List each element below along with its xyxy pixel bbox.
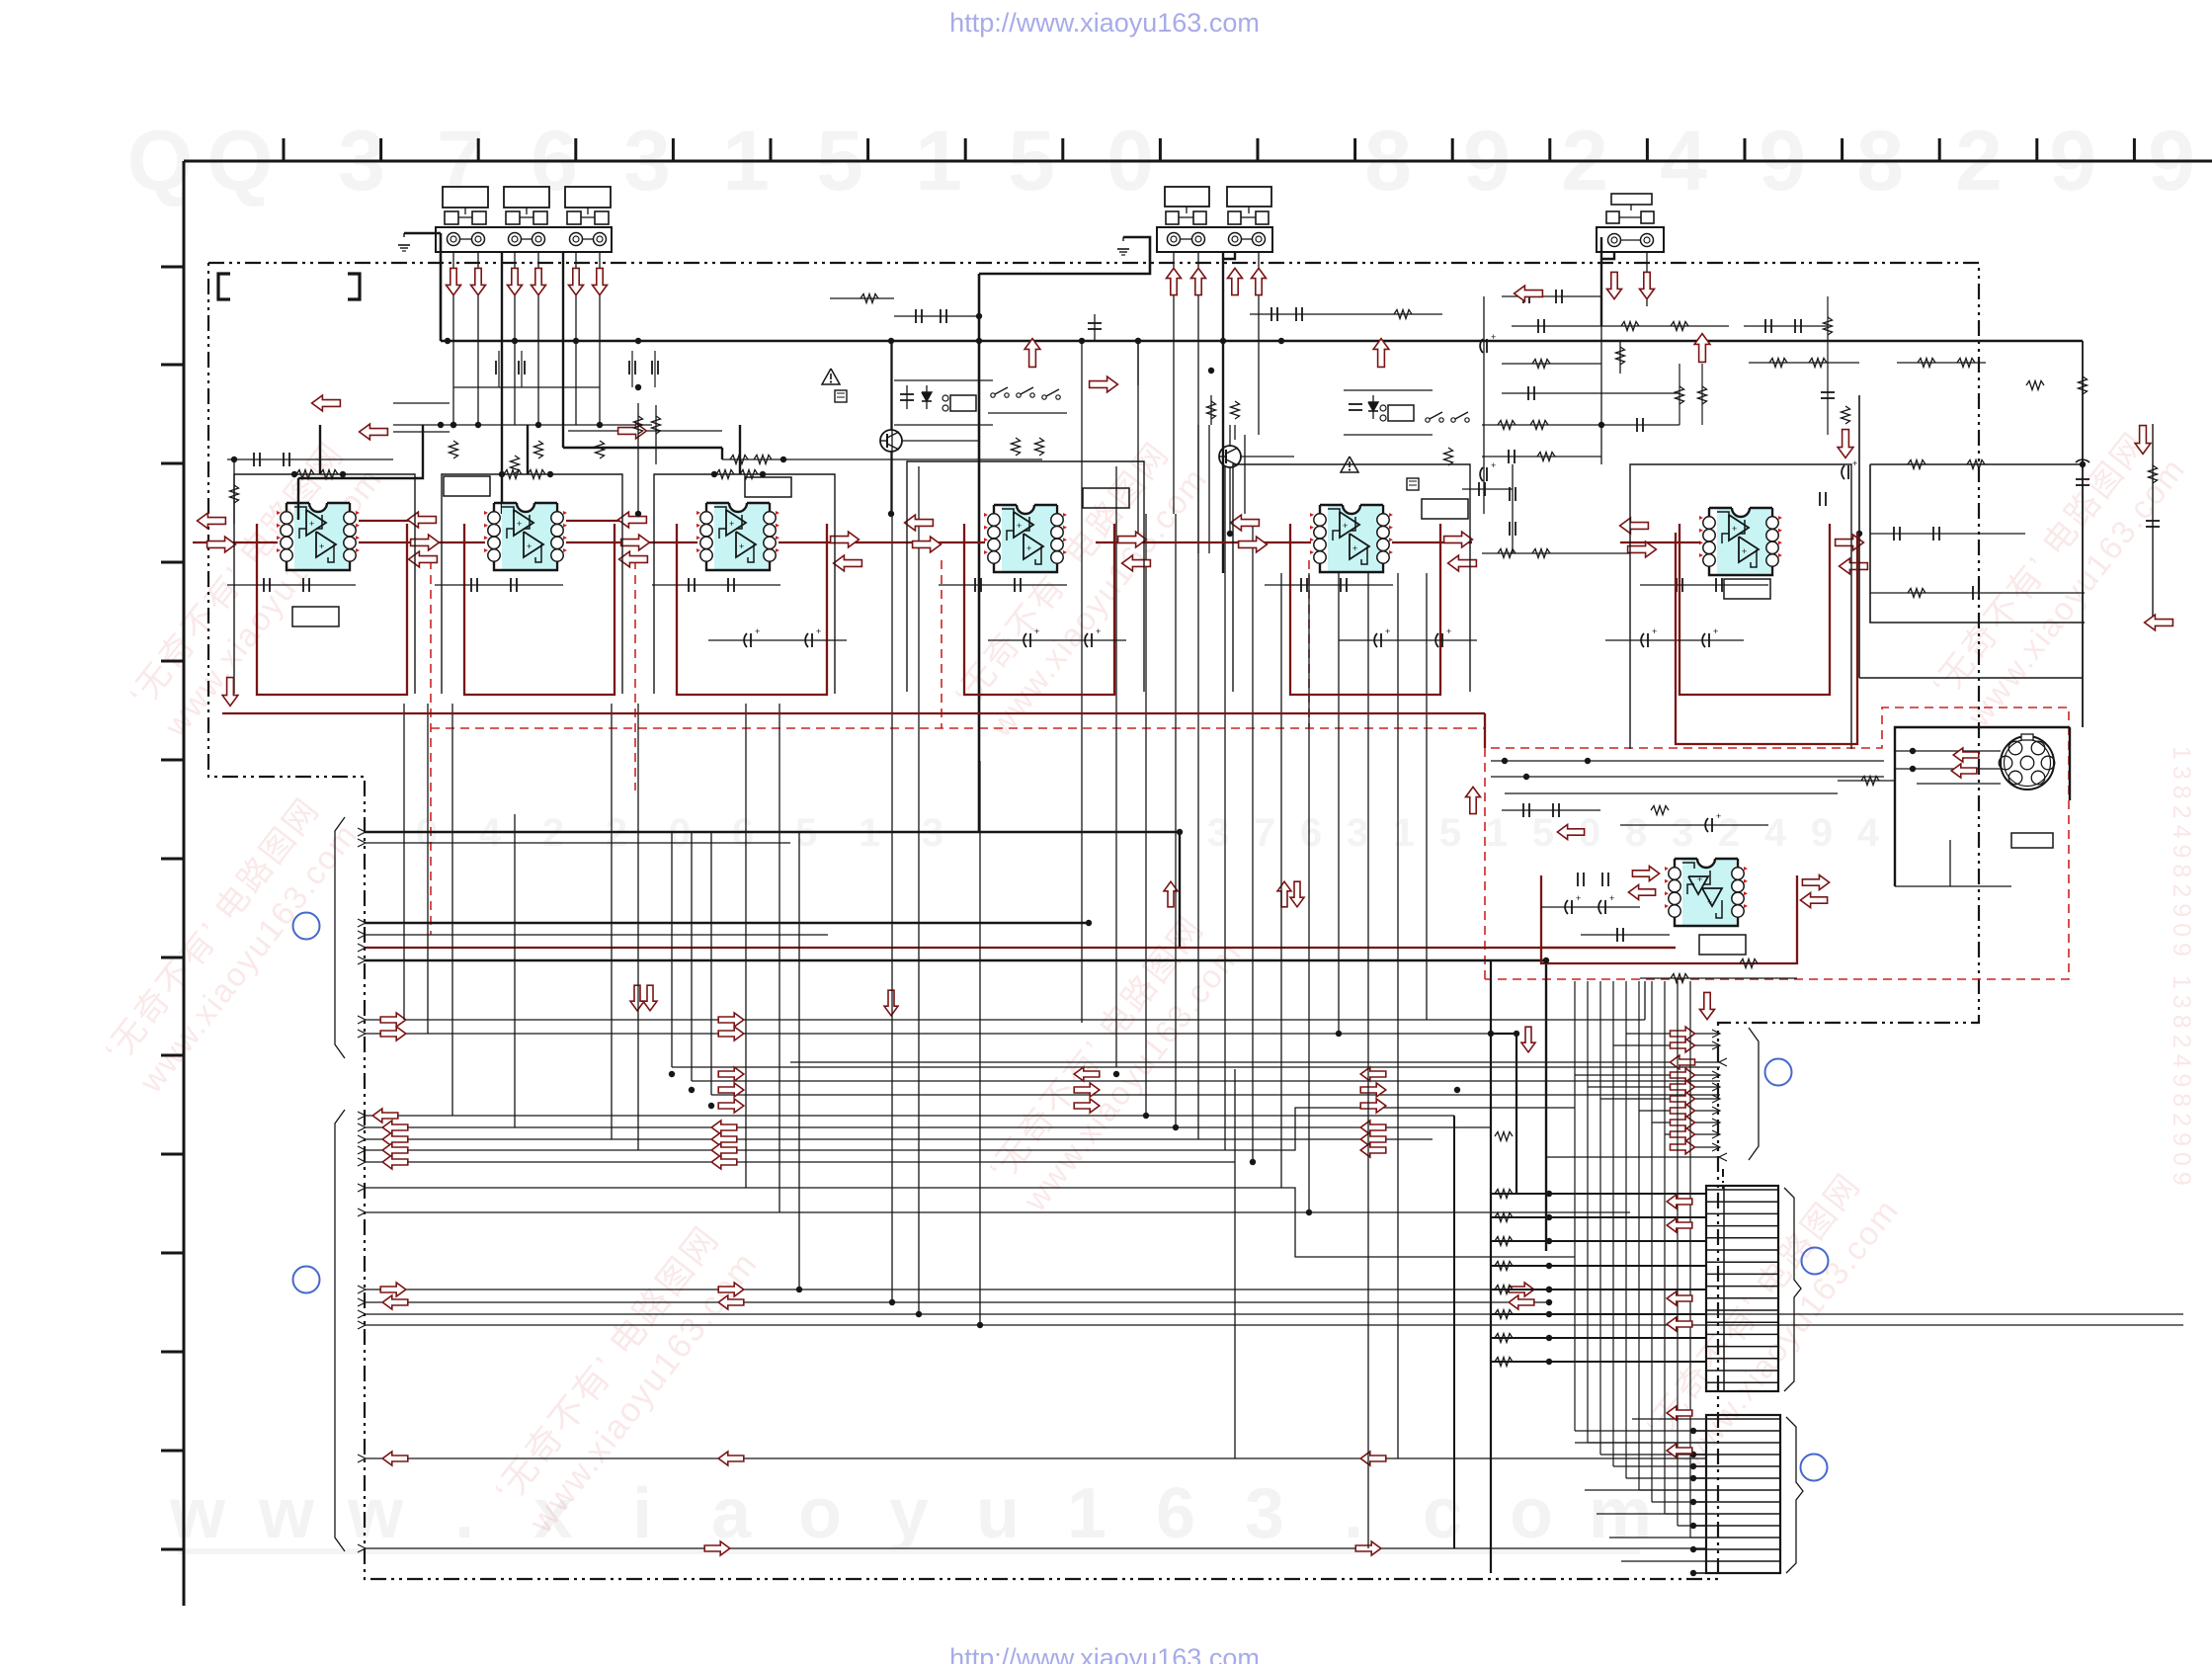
maroon risers — [1484, 713, 1486, 748]
wires CN101 down — [441, 233, 600, 514]
round connector CN301 frame — [1895, 727, 2070, 886]
svg-text:+: + — [1852, 458, 1857, 468]
CN102 plug bodies — [1165, 187, 1271, 224]
svg-text:4: 4 — [1857, 811, 1880, 855]
svg-text:5: 5 — [1439, 811, 1461, 855]
connector CN101 block — [436, 227, 612, 252]
svg-text:w: w — [169, 1474, 226, 1553]
blue ref circle left lower — [293, 1267, 320, 1293]
arrows CN402 — [1667, 1406, 1692, 1457]
svg-text:i: i — [632, 1474, 652, 1553]
transistor Q202 — [1219, 425, 1294, 534]
IC outline boxes — [234, 425, 1851, 749]
mid column resistors — [634, 384, 661, 514]
arrows CN301 — [1951, 748, 1979, 778]
electrolytic caps row — [708, 626, 1744, 647]
svg-text:9: 9 — [1811, 811, 1833, 855]
dashed highlight bus horizontal — [431, 727, 1485, 729]
caps right of CN102 — [1088, 307, 1442, 341]
svg-text:13824982909 13824982909: 13824982909 13824982909 — [2168, 746, 2195, 1192]
connector CN402 bracket — [1786, 1417, 1803, 1573]
right fan arrows — [1671, 1027, 1695, 1154]
svg-text:3: 3 — [1672, 811, 1693, 855]
main top bus wire — [441, 340, 2083, 343]
ghost footer url letters — [169, 1474, 1652, 1554]
op-amp IC3 highlight loop — [677, 524, 827, 695]
arrows CN101 — [447, 268, 608, 294]
svg-text:y: y — [889, 1474, 929, 1553]
board name brackets — [218, 274, 360, 299]
IC7 highlight loop — [1541, 875, 1797, 963]
connector CN103 block — [1597, 227, 1664, 252]
signal wires group2 — [365, 1069, 1630, 1548]
ghost middle digits — [416, 811, 1880, 855]
blue ref circle right — [1765, 1059, 1792, 1086]
bus wire y842 — [365, 832, 1180, 947]
filter block under CN101 — [227, 351, 722, 524]
left bus entry arrowheads — [358, 828, 366, 1552]
op-amp IC3 — [696, 503, 779, 570]
svg-text:+: + — [1713, 626, 1718, 636]
svg-text:1: 1 — [1067, 1474, 1106, 1553]
svg-text:o: o — [798, 1474, 842, 1553]
svg-text:w: w — [258, 1474, 315, 1553]
board outline dash-dot — [208, 263, 1979, 1579]
connector CN401 feed wires — [1491, 1190, 1706, 1367]
op-amp IC4 — [984, 505, 1067, 572]
warning mark W2 — [1341, 457, 1419, 490]
svg-text:+: + — [1343, 521, 1348, 531]
arrows mid up — [1024, 334, 1710, 392]
round connector CN301 — [1999, 734, 2055, 790]
svg-text:+: + — [1096, 626, 1101, 636]
connector CN402 feed stubs — [1575, 1419, 1706, 1576]
dashed highlight region — [1485, 707, 2069, 979]
svg-text:6: 6 — [1156, 1474, 1195, 1553]
svg-text:+: + — [527, 541, 532, 551]
svg-text:+: + — [739, 541, 744, 551]
op-amp IC5 — [1310, 505, 1393, 572]
svg-text:+: + — [1491, 332, 1496, 342]
op-amp IC2 highlight loop — [464, 524, 614, 695]
border top ruler line — [184, 160, 2212, 163]
svg-text:3: 3 — [1207, 811, 1229, 855]
ground at CN102 — [979, 237, 1150, 832]
IC7 op-amp block — [1665, 859, 1748, 926]
arrows CN102 — [1167, 268, 1267, 294]
maroon bus under ICs — [222, 712, 1485, 714]
wires CN103 down — [1601, 237, 1647, 326]
switch S202 — [1426, 341, 1625, 465]
coupling caps under ICs — [227, 578, 1768, 592]
connector CN102 block — [1157, 227, 1272, 252]
svg-text:+: + — [1017, 521, 1022, 531]
border left ruler line — [183, 161, 186, 1606]
svg-text:5: 5 — [1532, 811, 1554, 855]
warning mark W1 — [822, 369, 847, 402]
CN301 label box — [2011, 833, 2053, 848]
svg-text:.: . — [1344, 1474, 1363, 1553]
blue ref circle left upper — [293, 913, 320, 940]
resistor pair CN102 — [1135, 338, 1240, 440]
svg-text:1: 1 — [1486, 811, 1508, 855]
ground at CN101 — [398, 233, 441, 251]
dashed bus verticals — [431, 560, 1309, 935]
svg-text:+: + — [816, 626, 821, 636]
connector CN401 body — [1706, 1186, 1778, 1391]
op-amp IC1 highlight loop — [257, 524, 407, 695]
IC6 highlight loop — [1676, 533, 1857, 744]
svg-text:+: + — [729, 519, 734, 529]
svg-text:.: . — [454, 1474, 474, 1553]
svg-text:3: 3 — [1245, 1474, 1284, 1553]
op-amp IC4 highlight loop — [964, 524, 1114, 695]
right module parts — [1820, 376, 2160, 600]
svg-text:+: + — [309, 519, 314, 529]
thick feed risers CN401 — [1488, 960, 1519, 1573]
wires CN102 down — [1138, 252, 1259, 573]
transistor Q201 — [880, 341, 979, 514]
CN101 plug bodies — [443, 187, 611, 224]
svg-text:+: + — [1652, 626, 1657, 636]
resistor near CN301 — [1838, 777, 1895, 786]
op-amp IC6 — [1699, 508, 1782, 575]
svg-text:+: + — [1352, 543, 1357, 553]
bus wire maroon y959 — [365, 947, 1676, 949]
arrow down near left edge — [222, 678, 238, 707]
IC ref label boxes — [292, 476, 1770, 955]
svg-text:+: + — [1707, 897, 1712, 907]
relay RY202 — [1344, 390, 1433, 435]
op-amp IC5 highlight loop — [1290, 524, 1440, 695]
thick step wire mid — [563, 385, 1042, 464]
blue ref circle CN402 — [1801, 1455, 1828, 1481]
pink watermarks — [96, 422, 2192, 1540]
svg-text:+: + — [1716, 811, 1721, 821]
svg-text:+: + — [1491, 460, 1496, 470]
svg-text:+: + — [1034, 626, 1039, 636]
svg-text:+: + — [1742, 546, 1747, 556]
arrow above IC7 — [1466, 787, 1715, 1019]
vertical interconnect wires — [404, 341, 1427, 1548]
right fan bracket — [1749, 1028, 1759, 1160]
bus wire y946 — [365, 934, 828, 936]
switch S201 — [988, 387, 1067, 456]
connector CN402 body — [1706, 1415, 1780, 1573]
svg-text:o: o — [1510, 1474, 1553, 1553]
relay RY201 — [894, 380, 993, 425]
signal wires lower mid rows — [672, 1067, 1720, 1095]
svg-text:a: a — [711, 1474, 752, 1553]
svg-text:6: 6 — [1300, 811, 1322, 855]
right block caps column2 — [1480, 460, 1630, 558]
svg-text:3: 3 — [1347, 811, 1368, 855]
arrows IC7 — [1628, 867, 1829, 908]
svg-text:w: w — [347, 1474, 404, 1553]
arrows right column — [1515, 286, 2173, 630]
border top ticks — [284, 138, 2134, 161]
dash-dot stub above connector — [1722, 1169, 1724, 1189]
CN103 plug body — [1606, 194, 1654, 223]
arrows left small cluster — [312, 395, 647, 440]
arrows CN103 — [1607, 272, 1655, 298]
right block extra rows — [1462, 290, 1986, 496]
op-amp IC6 highlight loop — [1679, 524, 1830, 695]
svg-text:+: + — [755, 626, 760, 636]
svg-text:http://www.xiaoyu163.com: http://www.xiaoyu163.com — [949, 8, 1260, 38]
left bus bracket upper — [335, 817, 345, 1058]
signal wires group3 — [365, 1290, 2183, 1548]
wires above IC7 — [1491, 758, 1884, 832]
signal wires lower left group1 — [365, 981, 1645, 1034]
bus wire y972 — [365, 960, 1546, 1251]
svg-text:+: + — [1576, 893, 1581, 903]
op-amp IC2 — [484, 503, 567, 570]
svg-text:7: 7 — [1254, 811, 1275, 855]
caps near CN102 left — [830, 294, 982, 324]
connector CN401 bracket — [1784, 1188, 1801, 1391]
bus wire y934 — [365, 922, 1089, 924]
svg-text:http://www.xiaoyu163.com: http://www.xiaoyu163.com — [949, 1643, 1260, 1664]
svg-text:8: 8 — [1625, 811, 1647, 855]
svg-text:+: + — [319, 541, 324, 551]
right fan bus wires — [790, 1030, 1727, 1161]
svg-text:+: + — [1697, 874, 1702, 884]
comb verticals to CN402 — [1575, 981, 1706, 1538]
arrows IC row — [198, 512, 1868, 574]
right module frame — [1859, 341, 2153, 727]
arrows on long wires — [372, 881, 1535, 1555]
op-amp IC1 — [277, 503, 360, 570]
svg-text:+: + — [517, 519, 522, 529]
svg-text:+: + — [1026, 543, 1031, 553]
left bus bracket lower — [335, 1110, 345, 1551]
maroon signal links between ICs — [193, 521, 1700, 542]
IC7 support caps — [1541, 873, 1797, 983]
svg-text:4: 4 — [1764, 811, 1787, 855]
border left ticks — [161, 267, 184, 1549]
blue ref circle CN401 — [1802, 1248, 1829, 1275]
svg-text:+: + — [1609, 893, 1614, 903]
svg-text:+: + — [1446, 626, 1451, 636]
svg-text:u: u — [976, 1474, 1020, 1553]
svg-text:+: + — [1732, 524, 1737, 534]
arrows CN401 — [1667, 1195, 1692, 1331]
svg-text:+: + — [1385, 626, 1390, 636]
bus wire y853 — [365, 842, 790, 844]
right block wires — [1480, 296, 1679, 514]
svg-text:c: c — [1423, 1474, 1462, 1553]
svg-text:1: 1 — [1393, 811, 1415, 855]
ghost header digits — [127, 114, 2195, 208]
